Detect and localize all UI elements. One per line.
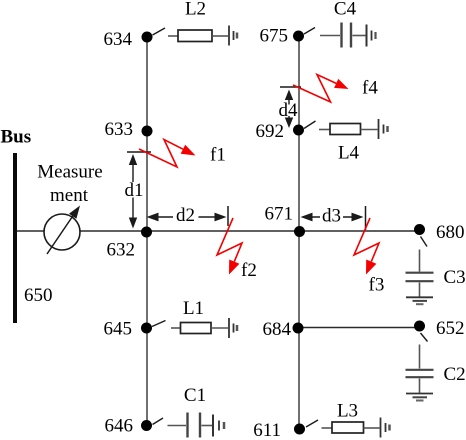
svg-text:L4: L4 <box>338 142 360 163</box>
svg-text:650: 650 <box>24 285 53 306</box>
svg-text:632: 632 <box>107 239 136 260</box>
svg-text:d2: d2 <box>176 205 195 226</box>
svg-text:Measure: Measure <box>37 162 102 183</box>
svg-text:d1: d1 <box>125 180 144 201</box>
svg-text:C1: C1 <box>184 385 206 406</box>
svg-text:L1: L1 <box>183 298 204 319</box>
svg-text:671: 671 <box>265 203 294 224</box>
svg-text:C3: C3 <box>444 267 466 288</box>
svg-text:680: 680 <box>436 222 465 243</box>
svg-text:634: 634 <box>104 29 133 50</box>
svg-text:C2: C2 <box>444 364 466 385</box>
svg-text:ment: ment <box>50 185 89 206</box>
svg-text:C4: C4 <box>334 0 357 19</box>
svg-text:645: 645 <box>104 318 133 339</box>
svg-text:611: 611 <box>253 420 281 440</box>
svg-text:f3: f3 <box>369 275 385 296</box>
svg-text:633: 633 <box>105 119 134 140</box>
svg-text:675: 675 <box>260 25 289 46</box>
svg-text:Bus: Bus <box>1 127 32 148</box>
svg-text:684: 684 <box>263 319 292 340</box>
svg-text:d3: d3 <box>322 206 341 227</box>
svg-text:f4: f4 <box>362 78 378 99</box>
svg-text:646: 646 <box>105 415 134 436</box>
svg-text:L2: L2 <box>185 0 206 19</box>
svg-text:d4: d4 <box>279 100 299 121</box>
svg-text:652: 652 <box>436 318 465 339</box>
svg-text:L3: L3 <box>337 400 358 421</box>
svg-text:f2: f2 <box>241 260 257 281</box>
svg-text:692: 692 <box>256 121 285 142</box>
svg-text:f1: f1 <box>210 145 226 166</box>
